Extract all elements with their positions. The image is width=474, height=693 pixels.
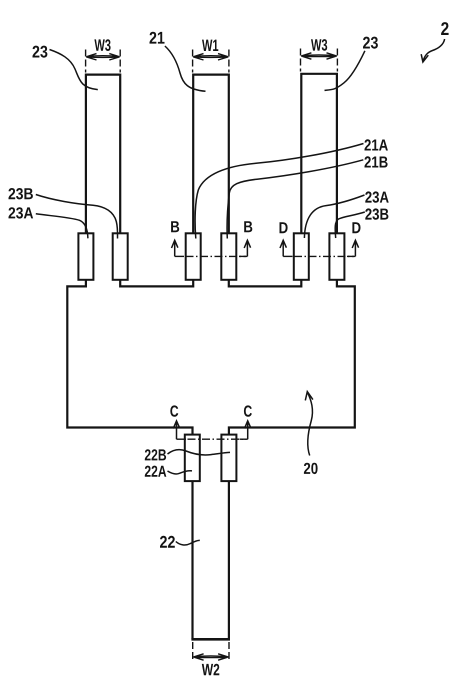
stem 22 bottom edge [191,638,230,641]
conductor prong 23 (right) outline [301,74,337,234]
dimension W2 extension lines [193,642,229,662]
dimension W1 extension lines [193,50,229,73]
section B-B: right label [244,221,252,232]
dimension W3 right extension lines [301,49,338,72]
leader 21A [195,144,363,239]
leader 23A right [304,195,364,238]
dimension W2 arrow [193,654,228,660]
stem 22 outline [193,481,229,639]
dimension W1 arrow [193,54,228,60]
label 23A left [9,207,34,218]
dimension W3 left text [94,39,110,51]
label 22B [145,449,166,460]
arrow under 2 [421,39,444,62]
pad 21A of middle prong [186,233,201,279]
label 20 [304,463,318,474]
body 20 outline: right section with right edge and bottom-right edge [229,280,355,435]
leader 23A left [36,214,88,239]
section B-B: left label [171,221,179,232]
label 22A [145,466,167,477]
body 20 outline: top connector between prong pads 21B and 23A(R) [229,280,301,287]
section B-B: left arrow [172,240,178,256]
label 23 top-left [33,46,48,58]
label 2 [441,22,449,35]
section C-C: right label [244,405,252,416]
label 23B left [9,188,33,199]
leader 23 top-left [50,50,98,90]
section line B-B [175,255,184,257]
pad 23B of left prong [113,233,128,279]
leader 21B [227,160,363,239]
label 21B [365,156,388,167]
dimension W2 text [202,664,220,676]
pad 23A of left prong [78,233,93,279]
label 23 top-right [363,37,378,49]
section line D-D [283,255,292,257]
section C-C: left label [170,405,178,416]
leader 22 [176,540,200,545]
dimension W1 text [202,40,218,51]
section B-B: right arrow [244,240,250,256]
leader 23 top-right [325,51,365,91]
dimension W3 right text [311,39,327,51]
section D-D: right label [352,222,360,233]
leader 22A [168,471,193,474]
body 20 outline: left section with left edge and bottom-left edge [67,280,192,435]
conductor prong 21 (middle) outline [193,75,229,234]
section D-D: left label [280,222,288,233]
dimension W3 left extension lines [86,50,121,73]
conductor prong 23 (left) outline [86,75,120,234]
section C-C: right arrow [245,421,251,439]
arrow from 20 to body [305,392,313,456]
label 23B right [365,208,388,219]
label 22 [160,536,175,548]
pad 22A (bottom left) [185,435,200,482]
label 21 [150,32,165,44]
leader 23B right [335,212,365,238]
section D-D: right arrow [352,240,358,256]
section C-C: left arrow [173,421,179,439]
section D-D: left arrow [280,240,286,256]
leader 23B left [36,195,118,239]
body 20 outline: top connector between prong pads 23B(L) and 21A [120,280,193,287]
dimension W3 right arrow [301,53,337,59]
dimension W3 left arrow [86,54,119,60]
leader 21 [165,46,206,91]
leader 22B [168,450,231,455]
label 21A [365,139,388,150]
section line C-C [177,438,187,440]
pad 23A of right prong [294,233,309,279]
pad 22B (bottom right) [221,435,236,482]
pad 23B of right prong [329,233,344,279]
pad 21B of middle prong [221,233,236,279]
label 23A right [365,191,388,202]
